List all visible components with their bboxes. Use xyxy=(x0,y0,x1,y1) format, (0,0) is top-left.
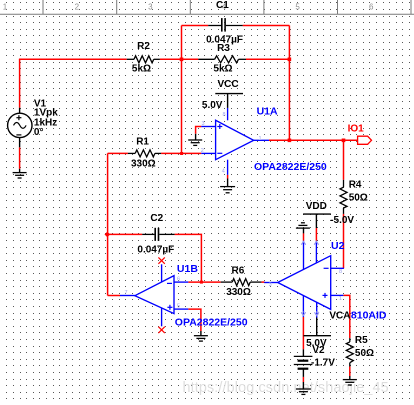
svg-text:IO1: IO1 xyxy=(348,123,365,134)
ground under V1 xyxy=(13,169,27,178)
ground at U1B plus xyxy=(194,331,208,341)
svg-text:1: 1 xyxy=(259,136,262,142)
svg-text:1: 1 xyxy=(3,3,8,12)
svg-text:0.047µF: 0.047µF xyxy=(137,244,174,255)
wire U1B plus to ground xyxy=(188,309,201,331)
wire U2 top-right pin red xyxy=(315,228,317,241)
junction output node xyxy=(288,139,292,143)
resistor R2 xyxy=(127,56,160,63)
svg-text:4: 4 xyxy=(222,168,225,174)
resistor R4 xyxy=(340,180,347,214)
svg-text:5: 5 xyxy=(316,311,319,317)
svg-text:6: 6 xyxy=(177,277,180,283)
junction IO1 node xyxy=(342,139,346,143)
label R2 xyxy=(132,41,151,74)
svg-text:2: 2 xyxy=(201,148,204,154)
label V2 xyxy=(306,338,335,369)
svg-text:6: 6 xyxy=(302,311,305,317)
svg-text:5kΩ: 5kΩ xyxy=(132,64,151,75)
wire R2 to node A xyxy=(160,58,182,60)
wire C2 right and down xyxy=(175,234,202,282)
wire U2 bottom-left to V2 xyxy=(302,317,304,349)
no-connect X bottom U1B xyxy=(158,327,164,333)
no-connect X top U1B xyxy=(158,257,164,263)
svg-text:R6: R6 xyxy=(232,266,245,277)
wire C1 right xyxy=(243,25,290,27)
wire V2 top link xyxy=(304,318,332,336)
op-amp U2 xyxy=(264,241,344,318)
svg-text:U1B: U1B xyxy=(177,263,198,275)
label C2 xyxy=(137,213,174,255)
svg-text:2: 2 xyxy=(75,3,80,12)
wire top row V1 to R2 xyxy=(19,58,127,60)
svg-text:VCA: VCA xyxy=(329,310,350,321)
capacitor C2 xyxy=(142,228,174,241)
pin arrow U2 top-right xyxy=(314,242,318,245)
wire R3 right xyxy=(246,58,289,60)
svg-text:1: 1 xyxy=(339,296,342,302)
wire U2 plus to R5 xyxy=(343,295,349,338)
svg-text:50Ω: 50Ω xyxy=(349,192,368,203)
wire R3 left xyxy=(182,58,199,60)
svg-text:8: 8 xyxy=(223,112,226,118)
op-amp U1B xyxy=(120,264,188,326)
svg-text:5kΩ: 5kΩ xyxy=(213,64,232,75)
svg-text:R2: R2 xyxy=(137,41,150,52)
junction node A xyxy=(180,58,184,62)
wire U1A pin2 stub xyxy=(182,152,202,154)
svg-text:330Ω: 330Ω xyxy=(226,287,251,298)
svg-text:C2: C2 xyxy=(150,213,163,224)
svg-text:R5: R5 xyxy=(355,335,368,346)
connector IO1 xyxy=(358,136,372,144)
svg-text:810AID: 810AID xyxy=(351,309,387,321)
svg-text:VDD: VDD xyxy=(306,201,327,212)
resistor R1 xyxy=(128,150,161,157)
svg-text:https://blog.csdn.net/shaojie_: https://blog.csdn.net/shaojie_45 xyxy=(183,380,389,396)
battery V2 xyxy=(294,349,313,377)
junction R1 node xyxy=(180,152,183,155)
label R1 xyxy=(131,136,156,169)
resistor R6 xyxy=(221,279,262,286)
wire left feedback vertical xyxy=(107,153,109,295)
ruler top band xyxy=(0,0,414,14)
ground under R5 xyxy=(343,376,357,385)
resistor R5 xyxy=(346,338,353,366)
svg-text:5.0V: 5.0V xyxy=(202,100,223,111)
wire V2 bottom red xyxy=(302,377,304,382)
svg-text:0.047µF: 0.047µF xyxy=(206,35,243,46)
svg-text:6: 6 xyxy=(369,3,374,12)
resistor R3 xyxy=(198,56,246,63)
source V1 xyxy=(8,108,32,148)
svg-text:OPA2822E/250: OPA2822E/250 xyxy=(254,161,327,173)
svg-text:5: 5 xyxy=(295,3,300,12)
svg-text:8: 8 xyxy=(339,269,342,275)
svg-text:5: 5 xyxy=(177,304,180,310)
label R5 xyxy=(355,335,374,359)
svg-text:V2: V2 xyxy=(312,345,325,356)
wire C1 left xyxy=(182,25,209,27)
svg-text:C1: C1 xyxy=(216,0,229,11)
wire R1 right xyxy=(161,152,181,154)
label R4 xyxy=(349,180,368,204)
op-amp U1A xyxy=(201,108,269,175)
svg-text:330Ω: 330Ω xyxy=(131,158,156,169)
wire R6 right xyxy=(261,281,264,283)
svg-text:-1.7V: -1.7V xyxy=(311,358,335,369)
power VDD xyxy=(303,214,331,228)
wire U2 top-left pin red xyxy=(303,233,305,241)
wire V1 top vertical xyxy=(19,59,21,107)
ground at U1A pin4 xyxy=(220,175,235,193)
label V1 xyxy=(34,98,58,138)
power VCC xyxy=(215,94,243,108)
pin arrow U2 top-left xyxy=(301,242,305,245)
wire IO1 node down to R4 xyxy=(343,140,345,180)
capacitor C1 xyxy=(208,18,243,32)
svg-text:U2: U2 xyxy=(331,240,345,252)
svg-text:R1: R1 xyxy=(136,136,149,147)
pin arrow U2 bottom-right xyxy=(315,312,319,315)
svg-text:0°: 0° xyxy=(34,127,44,138)
label C1 xyxy=(206,0,243,45)
wire U1B output xyxy=(108,295,120,297)
svg-text:3: 3 xyxy=(202,121,205,127)
svg-text:R4: R4 xyxy=(349,180,362,191)
pin arrow U2 bottom-left xyxy=(301,312,305,315)
label R3 xyxy=(213,43,232,74)
wire U1B inverting to R6 xyxy=(188,281,220,283)
wire C2 left xyxy=(108,233,143,235)
ground under V2 xyxy=(296,382,311,394)
svg-text:VCC: VCC xyxy=(218,79,239,90)
junction R3 right top xyxy=(288,58,292,62)
svg-text:3: 3 xyxy=(148,3,153,12)
wire right vertical C1 to output node xyxy=(288,26,290,141)
svg-text:OPA2822E/250: OPA2822E/250 xyxy=(175,317,248,329)
wire V1 bottom red xyxy=(19,147,21,169)
wire U1A output row to IO1 xyxy=(269,139,358,141)
junction C2 down node xyxy=(200,281,203,284)
svg-text:7: 7 xyxy=(125,290,128,296)
wire R5 bottom red xyxy=(349,367,351,377)
svg-text:-5.0V: -5.0V xyxy=(330,215,354,226)
wire R1 left xyxy=(108,152,128,154)
wire U1A pin3 ground stub xyxy=(196,127,202,134)
wire R4 bottom to U2 inverting xyxy=(343,214,345,268)
svg-text:50Ω: 50Ω xyxy=(355,348,374,359)
ground at U1A pin3 xyxy=(188,134,202,146)
svg-text:3: 3 xyxy=(269,282,272,288)
svg-text:U1A: U1A xyxy=(257,105,278,117)
label R6 xyxy=(226,266,251,299)
wire left vertical node A to U1A inverting input xyxy=(181,26,183,154)
ground flipped at U2 xyxy=(296,223,310,234)
junction C2 left diamond xyxy=(105,232,111,238)
